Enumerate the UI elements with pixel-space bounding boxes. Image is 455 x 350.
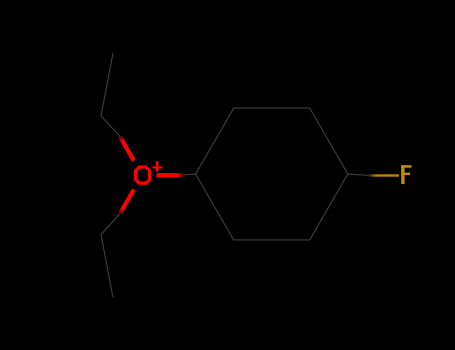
ethyl 2 (lower): gray half of O-CH2 bond [101,214,120,235]
goldenrod half of bond C4 to F (fading left end) [369,174,400,176]
ethyl 2 (lower): CH2-CH3 bond [101,235,113,298]
red half of bond O to ring C1 (fading right end) [157,173,185,177]
ethyl 1 (upper): CH2-CH3 bond [101,53,113,116]
red half of bond O to lower CH2 [120,190,134,214]
oxygen atom label O+ (oxonium): octagonal O glyph [134,165,151,184]
benzene ring C6H4 [196,108,348,240]
fluorine atom label F [401,165,411,184]
plus sign of O+ [152,166,162,168]
wire: gray half of bond O to ring C1 [181,173,196,176]
wire: gray half of bond C4 to F [348,174,369,175]
red half of bond O to upper CH2 [120,137,134,161]
ethyl 1 (upper): gray half of O-CH2 bond [101,116,120,137]
